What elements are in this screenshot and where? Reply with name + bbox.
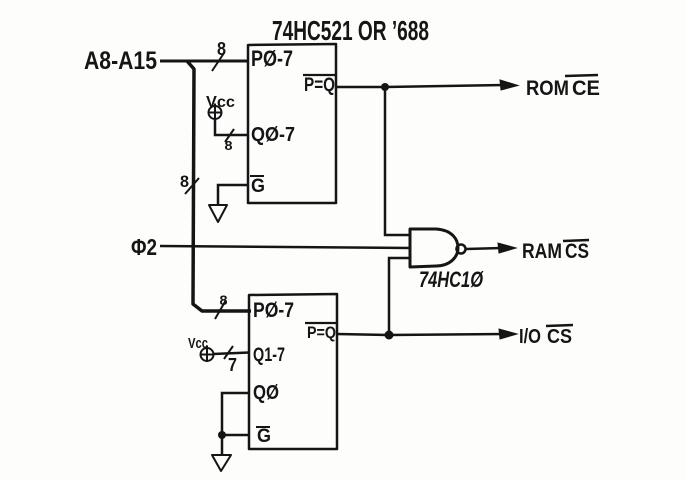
svg-text:ROM: ROM (526, 77, 569, 100)
svg-text:Q1-7: Q1-7 (253, 345, 285, 366)
label 74HC10 (419, 267, 484, 292)
U3 output label P=Q (active low) (305, 323, 338, 342)
svg-text:I/O: I/O (519, 326, 541, 348)
ground symbol upper (209, 205, 227, 222)
U1 output label P=Q (active low) (303, 75, 336, 96)
U1 pin label G (active low) (250, 176, 265, 197)
wire address bus vertical (187, 61, 251, 311)
U3 pin label G (active low) (256, 426, 271, 447)
U3 pin label P0-7 (253, 299, 294, 322)
node A8-A15 input label (84, 47, 157, 75)
bus slash 7 on Vcc wire (224, 346, 237, 375)
svg-text:74HC1Ø: 74HC1Ø (419, 267, 484, 292)
wire U1 P=Q output to ROM CE (336, 85, 504, 87)
U3 pin label Q1-7 (253, 345, 285, 366)
node junction on I/O CS line (385, 331, 394, 340)
node junction Q0/G tie (218, 431, 226, 439)
svg-text:PØ-7: PØ-7 (253, 299, 294, 322)
title label 74HC521 OR '688 (272, 15, 429, 46)
power Vcc symbol lower (188, 335, 214, 362)
node junction on ROM CE line (381, 83, 389, 91)
svg-text:P=Q: P=Q (307, 323, 336, 342)
U1 pin label Q0-7 (251, 124, 295, 146)
svg-text:8: 8 (220, 292, 228, 308)
svg-text:RAM: RAM (522, 240, 562, 263)
wire Vcc to U1 Q0-7 (215, 119, 247, 135)
svg-text:8: 8 (225, 138, 233, 153)
comparator U3 74HC521 body lower (249, 294, 337, 449)
svg-text:Φ2: Φ2 (131, 234, 157, 260)
svg-text:PØ-7: PØ-7 (251, 46, 293, 71)
U3 pin label Q0 (253, 382, 279, 404)
wire U3 P=Q output to I/O CS (337, 334, 505, 335)
wire Vcc to U3 Q1-7 (213, 353, 249, 355)
output label I/O CS (519, 325, 573, 348)
svg-text:QØ: QØ (253, 382, 279, 404)
wire A8-A15 to U1 P0-7 (160, 60, 249, 63)
svg-text:74HC521 OR ’688: 74HC521 OR ’688 (272, 15, 429, 46)
arrowhead ROM CE (500, 80, 518, 90)
wire U1 G to ground (218, 185, 248, 204)
svg-text:P=Q: P=Q (304, 75, 335, 96)
arrowhead RAM CS (498, 243, 516, 253)
bus slash 8 on A8-A15 line (212, 39, 226, 71)
svg-text:A8-A15: A8-A15 (84, 47, 157, 75)
arrowhead I/O CS (499, 329, 517, 339)
wire phi2 to NAND input 2 (160, 246, 411, 248)
wire junction to NAND input 1 (385, 87, 410, 235)
svg-text:8: 8 (180, 172, 189, 191)
svg-text:CS: CS (547, 326, 572, 348)
svg-text:Vcc: Vcc (188, 335, 208, 352)
wire U3 G to ground (222, 435, 249, 455)
bus slash 8 on vertical bus (180, 172, 199, 194)
U1 pin label P0-7 (251, 46, 293, 71)
svg-text:CS: CS (565, 240, 589, 263)
node phi2 input label (131, 234, 157, 260)
bus slash 8 at U3 P0-7 (215, 292, 228, 319)
svg-text:G: G (257, 426, 271, 447)
svg-text:G: G (251, 176, 265, 197)
power Vcc symbol upper (206, 94, 235, 120)
comparator U1 74HC521 body (248, 44, 336, 203)
wire NAND output to RAM CS (466, 248, 502, 249)
svg-text:7: 7 (228, 355, 237, 375)
output label ROM CE (526, 75, 600, 100)
ground symbol lower (212, 455, 231, 471)
svg-text:QØ-7: QØ-7 (251, 124, 295, 146)
svg-text:CE: CE (572, 77, 600, 100)
output label RAM CS (522, 240, 589, 263)
nand gate U2 74HC10 (410, 229, 466, 267)
wire NAND input 3 to I/O line (389, 258, 410, 335)
svg-text:8: 8 (217, 39, 226, 59)
wire U3 Q0 to G (222, 393, 249, 435)
bus slash 8 on Vcc wire (225, 129, 235, 153)
